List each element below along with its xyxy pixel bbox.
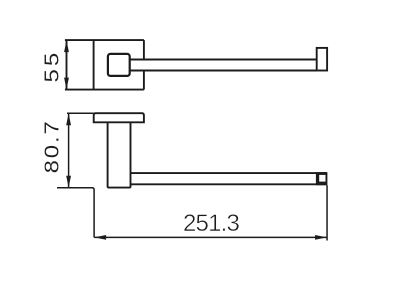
top view: wall plate bottom edge (65, 89, 144, 91)
dimension 55 arrow up (64, 40, 69, 52)
top view: bar (white body with top/bottom lines) (130, 59, 317, 72)
top view: bar end cap (317, 48, 327, 71)
top view: wall plate left edge / dimension line 55 (66, 40, 68, 90)
dimension 80.7 label (40, 119, 63, 173)
side view: bar end block (316, 172, 328, 185)
dimension 251.3: bottom-left extension step (57, 188, 94, 238)
dimension 251.3 arrow left (94, 235, 106, 240)
svg-text:251.3: 251.3 (183, 210, 240, 237)
dimension 80.7: dimension line (68, 113, 70, 188)
dimension 55 label (40, 50, 63, 83)
top view: wall plate right edge (143, 40, 145, 90)
side view: post (108, 122, 131, 187)
side view: wall flange cap (94, 113, 144, 122)
dimension 55 arrow down (64, 78, 69, 90)
dimension 251.3 arrow right (315, 235, 327, 240)
dimension 251.3: dimension line (94, 236, 327, 238)
top view: plate divider line (93, 40, 95, 90)
svg-text:80.7: 80.7 (40, 119, 63, 173)
top view: wall plate top edge (65, 39, 144, 41)
dimension 80.7: top extension line (67, 112, 94, 114)
svg-text:55: 55 (40, 50, 63, 83)
dimension 80.7 arrow up (66, 113, 71, 125)
dimension 251.3 label (183, 210, 240, 237)
side view: bar (white body with top/bottom lines) (120, 173, 327, 184)
top view: inner boss square (108, 54, 130, 76)
dimension 251.3: right extension line (326, 185, 328, 240)
dimension 80.7 arrow down (66, 176, 71, 188)
